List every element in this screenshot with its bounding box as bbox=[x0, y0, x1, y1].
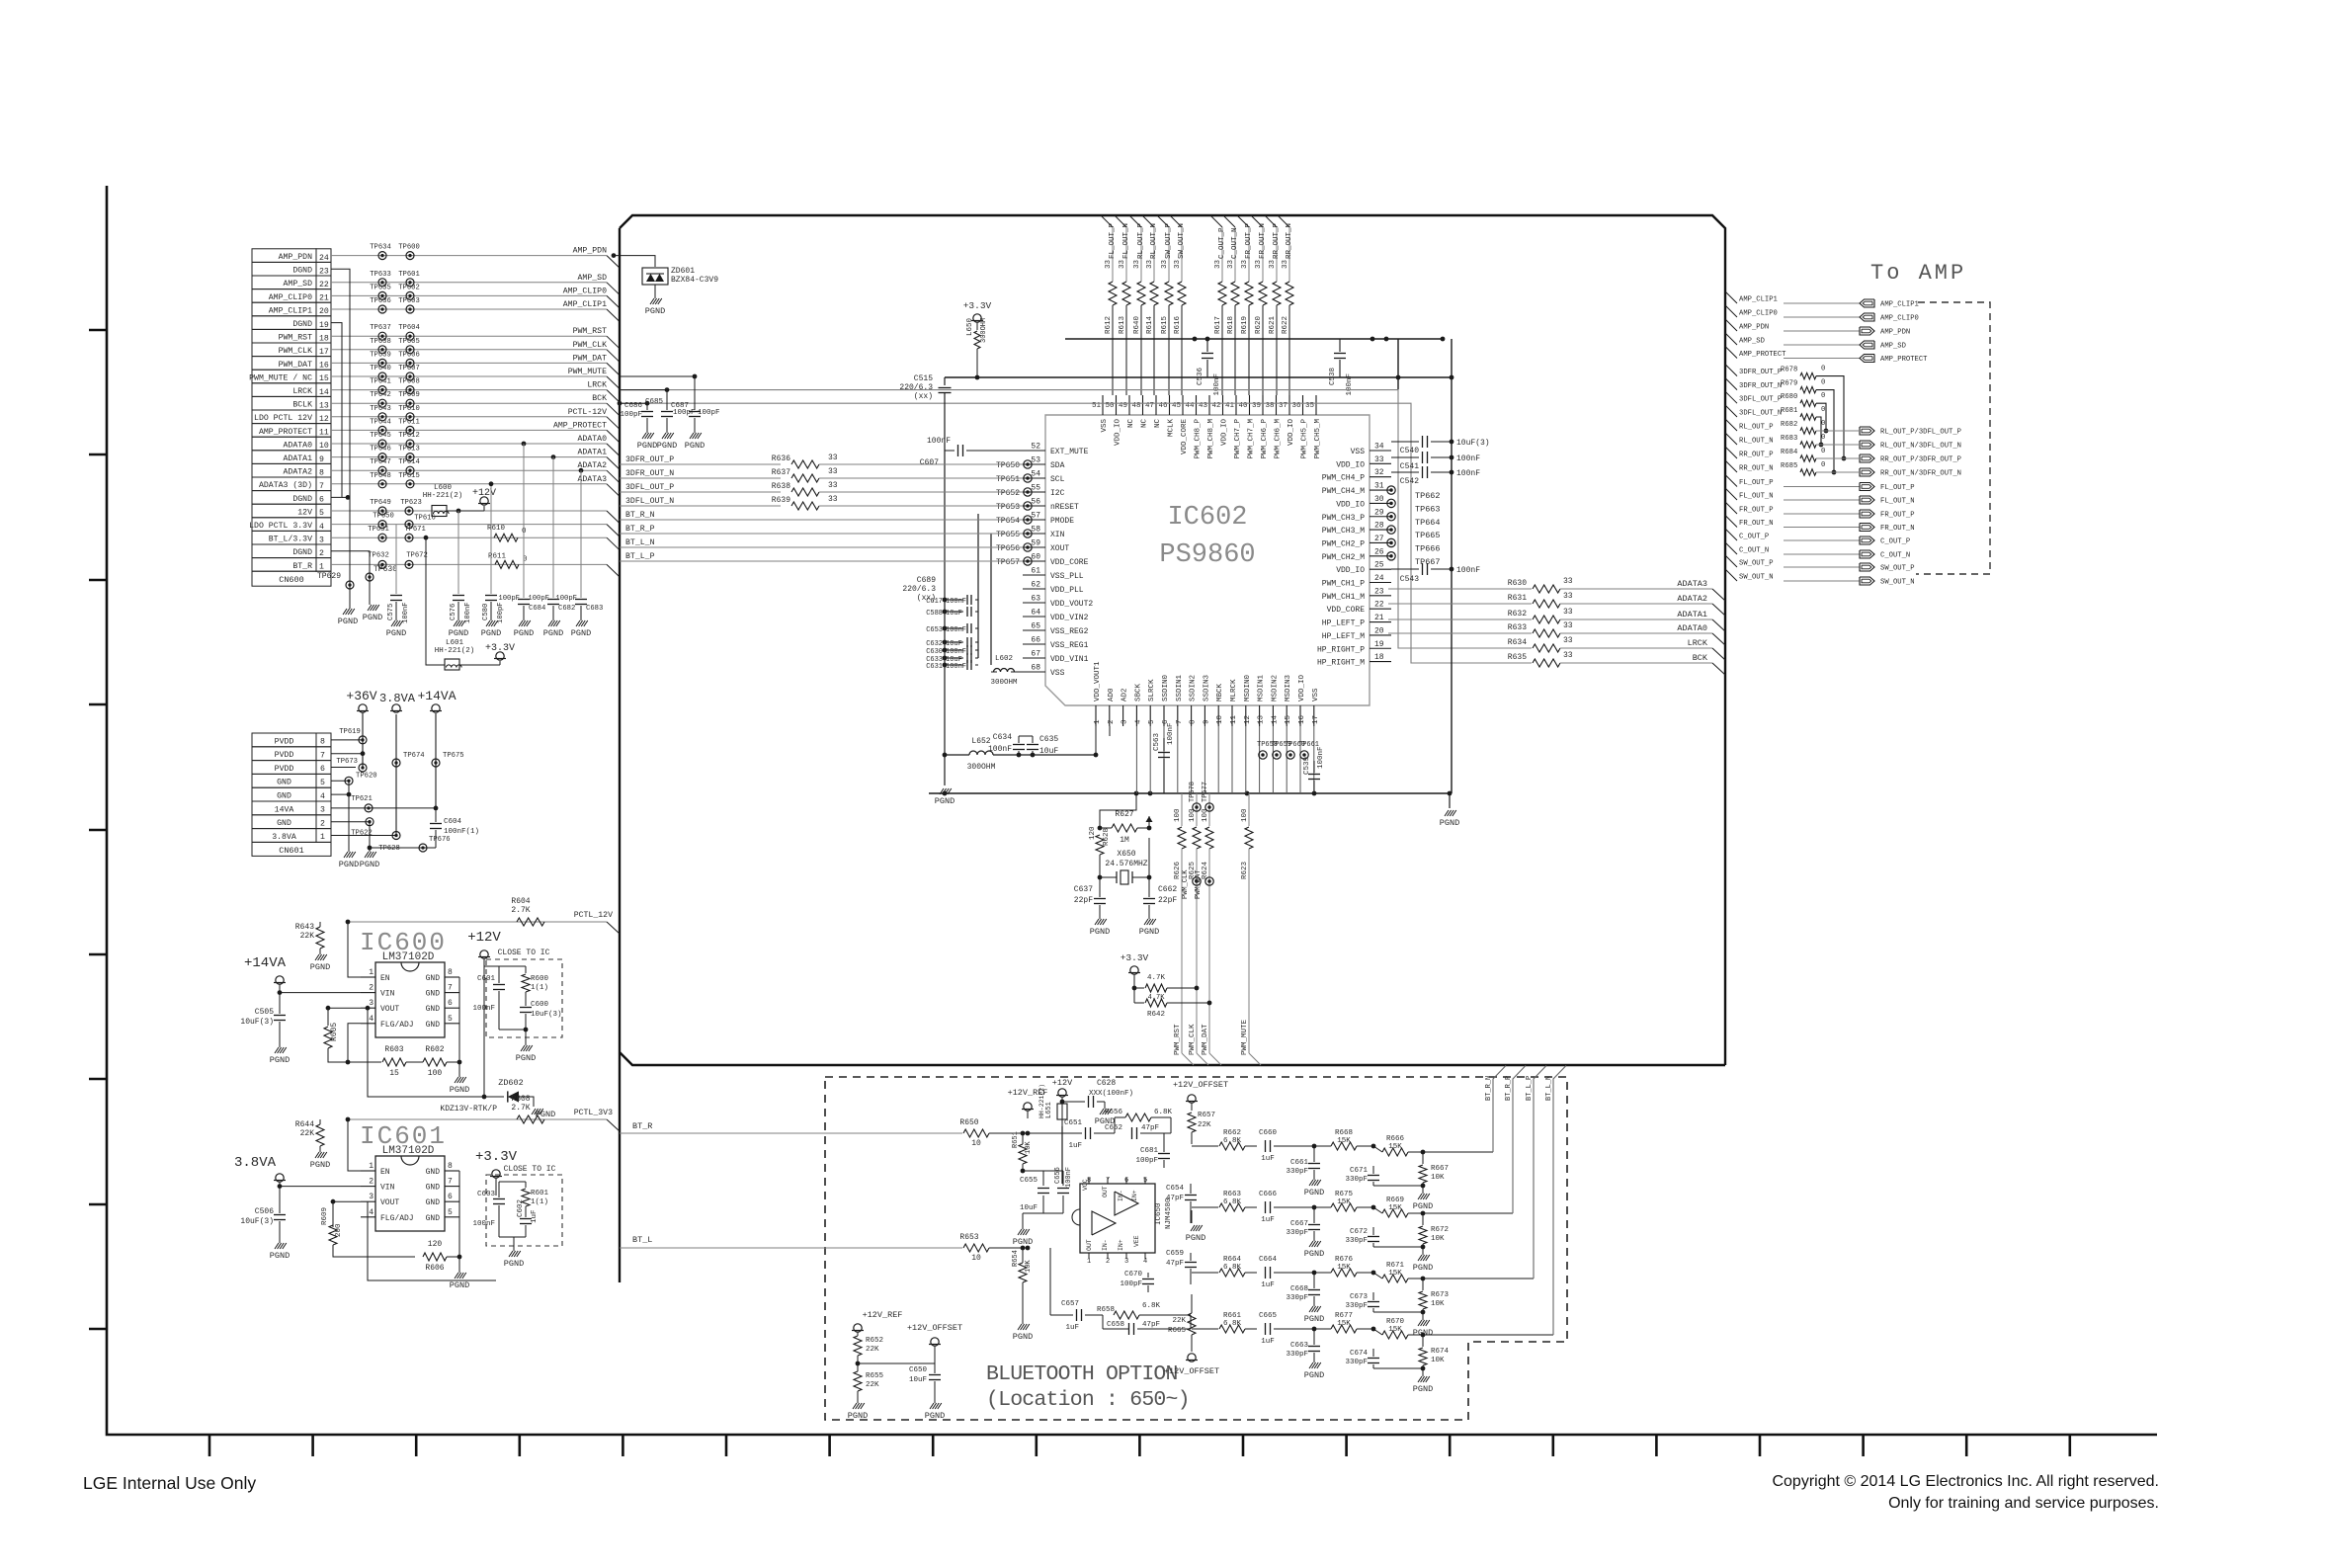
svg-text:SSDIN3: SSDIN3 bbox=[1203, 674, 1210, 701]
capacitor C660 1uF bbox=[1265, 1140, 1267, 1152]
svg-text:PGND: PGND bbox=[925, 1411, 945, 1421]
svg-text:100nF: 100nF bbox=[1167, 722, 1175, 745]
svg-text:R621: R621 bbox=[1269, 315, 1277, 334]
svg-text:PGND: PGND bbox=[1440, 818, 1459, 828]
pin 55 bbox=[1023, 491, 1045, 493]
svg-text:BCLK: BCLK bbox=[292, 401, 312, 410]
svg-text:VDD_IO: VDD_IO bbox=[1298, 674, 1306, 701]
test point TP607 bbox=[406, 372, 414, 380]
ground bbox=[275, 1047, 279, 1053]
svg-text:PGND: PGND bbox=[1186, 1233, 1205, 1243]
svg-text:RL_OUT_N: RL_OUT_N bbox=[1150, 223, 1158, 259]
svg-text:R672: R672 bbox=[1431, 1226, 1449, 1234]
svg-text:PGND: PGND bbox=[1013, 1332, 1033, 1342]
svg-text:PGND: PGND bbox=[386, 628, 406, 638]
svg-text:32: 32 bbox=[1374, 468, 1384, 477]
capacitor C576 bbox=[457, 511, 459, 594]
svg-text:8: 8 bbox=[1190, 719, 1198, 724]
svg-text:10: 10 bbox=[1216, 714, 1224, 724]
svg-text:C671: C671 bbox=[1350, 1167, 1369, 1175]
svg-text:3DFR_OUT_N: 3DFR_OUT_N bbox=[1739, 382, 1782, 390]
wire ADJ bbox=[348, 1024, 361, 1062]
svg-text:AMP_PROTECT: AMP_PROTECT bbox=[1739, 351, 1786, 359]
capacitor C657 bbox=[1049, 1248, 1051, 1315]
wire 3DFR_OUT_P route bbox=[1816, 376, 1844, 458]
svg-text:TP657: TP657 bbox=[996, 558, 1020, 567]
pin 38 bbox=[1276, 395, 1278, 415]
capacitor C632 bbox=[943, 640, 948, 645]
svg-text:AMP_CLIP1: AMP_CLIP1 bbox=[269, 306, 312, 315]
wire pin5 bbox=[1149, 726, 1151, 793]
test point TP650 bbox=[378, 521, 386, 529]
svg-text:PWM_CLK: PWM_CLK bbox=[1182, 869, 1190, 899]
ground bbox=[857, 1391, 859, 1403]
resistor R600 1(1) bbox=[525, 966, 527, 973]
svg-text:33: 33 bbox=[1563, 636, 1573, 645]
svg-text:0: 0 bbox=[1821, 461, 1825, 469]
svg-text:26: 26 bbox=[1374, 547, 1384, 556]
svg-text:100pF: 100pF bbox=[555, 595, 577, 603]
svg-text:12: 12 bbox=[1244, 715, 1252, 724]
wire FR_OUT_P bbox=[1725, 502, 1737, 514]
wire VDD rail bbox=[1451, 339, 1453, 793]
svg-text:TP673: TP673 bbox=[336, 758, 358, 766]
svg-text:54: 54 bbox=[1031, 470, 1040, 479]
svg-text:BT_L/3.3V: BT_L/3.3V bbox=[269, 535, 312, 544]
svg-text:33: 33 bbox=[1563, 577, 1573, 586]
svg-text:GND: GND bbox=[277, 779, 291, 787]
svg-text:C630: C630 bbox=[926, 648, 943, 656]
pin 39 bbox=[1262, 395, 1264, 415]
svg-text:C683: C683 bbox=[586, 605, 603, 613]
connector arrow AMP_PROTECT bbox=[1860, 355, 1874, 363]
svg-text:C634: C634 bbox=[993, 733, 1012, 742]
svg-text:33: 33 bbox=[1214, 259, 1222, 269]
svg-text:AMP_PDN: AMP_PDN bbox=[1739, 324, 1769, 332]
svg-text:1M: 1M bbox=[1120, 836, 1129, 845]
svg-text:6: 6 bbox=[319, 496, 324, 505]
pin 5 bbox=[1149, 705, 1151, 726]
svg-text:L601: L601 bbox=[446, 639, 464, 647]
svg-text:R658: R658 bbox=[1097, 1306, 1115, 1314]
svg-text:0: 0 bbox=[1821, 392, 1825, 400]
svg-text:330pF: 330pF bbox=[1286, 1351, 1308, 1359]
test point TP638 bbox=[378, 346, 386, 354]
pin 15 bbox=[1286, 705, 1287, 726]
wire BT_L bbox=[620, 1247, 962, 1249]
wire pgnd link bbox=[370, 847, 436, 849]
svg-text:PGND: PGND bbox=[514, 628, 534, 638]
wire LRCK bbox=[331, 389, 607, 391]
pin 36 bbox=[1302, 395, 1304, 415]
wire C_OUT_N bbox=[1223, 215, 1235, 227]
svg-text:R670: R670 bbox=[1386, 1318, 1405, 1326]
wire bbox=[333, 1245, 415, 1257]
svg-text:29: 29 bbox=[1374, 508, 1384, 517]
svg-text:100nF: 100nF bbox=[1456, 566, 1480, 575]
svg-text:100nF: 100nF bbox=[946, 648, 966, 656]
svg-text:PGND: PGND bbox=[360, 860, 379, 869]
svg-text:PWM_DAT: PWM_DAT bbox=[1202, 1024, 1209, 1055]
svg-text:KDZ13V-RTK/P: KDZ13V-RTK/P bbox=[440, 1105, 497, 1114]
svg-text:CN601: CN601 bbox=[279, 846, 304, 856]
svg-text:PGND: PGND bbox=[270, 1251, 290, 1261]
svg-text:PGND: PGND bbox=[449, 628, 468, 638]
svg-text:C670: C670 bbox=[1124, 1271, 1143, 1279]
svg-text:100nF: 100nF bbox=[464, 602, 472, 623]
svg-text:17: 17 bbox=[1312, 715, 1320, 724]
svg-text:AMP_PDN: AMP_PDN bbox=[573, 247, 607, 256]
svg-text:TP631: TP631 bbox=[368, 526, 389, 534]
capacitor C661 330pF bbox=[1313, 1146, 1315, 1162]
pin 9 bbox=[1204, 705, 1205, 726]
svg-text:3.8VA: 3.8VA bbox=[272, 833, 296, 842]
wire pin13 bbox=[1259, 726, 1261, 793]
pin 7 bbox=[1177, 705, 1179, 726]
svg-text:55: 55 bbox=[1031, 484, 1040, 493]
wire RR_OUT_N bbox=[1725, 460, 1737, 472]
pin 2 bbox=[1109, 705, 1111, 726]
svg-text:FL_OUT_N: FL_OUT_N bbox=[1739, 493, 1774, 501]
svg-text:33: 33 bbox=[1241, 259, 1249, 269]
svg-text:33: 33 bbox=[1133, 259, 1141, 269]
svg-text:RL_OUT_P/3DFL_OUT_P: RL_OUT_P/3DFL_OUT_P bbox=[1880, 429, 1961, 437]
svg-text:10uF: 10uF bbox=[1020, 1204, 1038, 1212]
svg-text:IN+: IN+ bbox=[1131, 1190, 1138, 1201]
svg-text:DGND: DGND bbox=[292, 548, 312, 557]
svg-text:LGE Internal Use Only: LGE Internal Use Only bbox=[83, 1473, 256, 1493]
svg-text:SW_OUT_N: SW_OUT_N bbox=[1178, 223, 1186, 259]
svg-text:VIN: VIN bbox=[380, 990, 395, 999]
capacitor C662 22pF bbox=[1148, 877, 1150, 897]
pin 4 bbox=[1135, 705, 1137, 726]
BLUETOOTH OPTION dashed box bbox=[825, 1077, 1567, 1420]
IC IC601 LM37102D body bbox=[375, 1156, 445, 1231]
IC IC600 LM37102D body bbox=[375, 962, 445, 1037]
svg-text:PGND: PGND bbox=[543, 628, 563, 638]
svg-text:DGND: DGND bbox=[292, 267, 312, 276]
svg-text:3.8VA: 3.8VA bbox=[234, 1155, 277, 1171]
wire gnd2 rail bbox=[369, 822, 371, 852]
wire PCTL_3V3 bbox=[348, 1118, 607, 1120]
svg-text:3DFR_OUT_P: 3DFR_OUT_P bbox=[1739, 369, 1782, 376]
resistor R640 33 bbox=[1137, 282, 1145, 305]
svg-text:TP664: TP664 bbox=[1415, 518, 1441, 528]
test point TP672 bbox=[405, 560, 413, 568]
svg-text:6.8K: 6.8K bbox=[1223, 1137, 1242, 1145]
test point TP634 bbox=[378, 252, 386, 260]
capacitor C653 bbox=[943, 626, 948, 631]
resistor R679 0 bbox=[1800, 386, 1816, 392]
pin 42 bbox=[1222, 395, 1224, 415]
resistor R623 100 bbox=[1245, 827, 1253, 849]
wire AMP_SD bbox=[331, 282, 607, 284]
wire PWM_CLK bbox=[331, 349, 607, 351]
wire VOUT to ZD602 bbox=[366, 1006, 371, 1011]
resistor R684 0 bbox=[1800, 455, 1816, 461]
capacitor C674 330pF bbox=[1372, 1349, 1374, 1357]
svg-text:200: 200 bbox=[335, 1223, 343, 1237]
svg-text:33: 33 bbox=[828, 481, 838, 490]
capacitor C667 330pF bbox=[1313, 1207, 1315, 1223]
svg-text:TP674: TP674 bbox=[403, 752, 425, 760]
svg-text:27: 27 bbox=[1374, 535, 1384, 543]
svg-text:1: 1 bbox=[1094, 719, 1102, 724]
svg-text:TP609: TP609 bbox=[398, 391, 420, 399]
svg-text:GND: GND bbox=[426, 974, 441, 983]
test point TP655 bbox=[1024, 530, 1032, 537]
svg-text:1uF: 1uF bbox=[1261, 1216, 1275, 1224]
svg-text:+14VA: +14VA bbox=[244, 955, 287, 971]
svg-text:ADATA0: ADATA0 bbox=[284, 441, 313, 450]
pin 26 bbox=[1370, 555, 1391, 557]
svg-text:7: 7 bbox=[448, 984, 453, 993]
svg-text:C672: C672 bbox=[1350, 1228, 1368, 1236]
svg-text:C652: C652 bbox=[1105, 1124, 1122, 1132]
svg-text:TP641: TP641 bbox=[370, 378, 391, 386]
svg-text:(Location : 650~): (Location : 650~) bbox=[986, 1388, 1190, 1412]
svg-text:10uF(3): 10uF(3) bbox=[1456, 439, 1490, 448]
svg-text:MSDIN3: MSDIN3 bbox=[1285, 674, 1292, 701]
svg-text:14VA: 14VA bbox=[275, 805, 294, 814]
svg-text:PWM_CH2_P: PWM_CH2_P bbox=[1322, 539, 1365, 548]
wire BT_R bbox=[620, 1132, 962, 1134]
svg-text:3DFR_OUT_N: 3DFR_OUT_N bbox=[625, 469, 674, 478]
svg-text:TP661: TP661 bbox=[1298, 741, 1319, 749]
svg-text:100: 100 bbox=[1241, 808, 1249, 822]
connector arrow RR_OUT_P/3DFR_OUT_P bbox=[1860, 454, 1874, 462]
wire 3DFL_OUT_N route bbox=[1816, 417, 1821, 445]
CLOSE TO IC box bbox=[486, 1175, 562, 1246]
svg-text:TP654: TP654 bbox=[996, 517, 1020, 526]
svg-text:R619: R619 bbox=[1241, 316, 1249, 334]
test point TP611 bbox=[406, 426, 414, 434]
svg-text:2: 2 bbox=[319, 549, 324, 558]
svg-text:C540: C540 bbox=[1400, 447, 1419, 455]
svg-text:8: 8 bbox=[320, 738, 325, 747]
svg-text:PWM_CLK: PWM_CLK bbox=[573, 341, 607, 350]
svg-text:TP671: TP671 bbox=[404, 526, 426, 534]
svg-text:67: 67 bbox=[1031, 650, 1040, 659]
svg-text:TP638: TP638 bbox=[370, 338, 391, 346]
pin 1 EN bbox=[361, 1170, 375, 1172]
svg-text:GND: GND bbox=[426, 1198, 441, 1207]
pin 11 bbox=[1231, 705, 1233, 726]
pin 5 GND bbox=[445, 1216, 459, 1218]
connector arrow SW_OUT_P bbox=[1860, 563, 1874, 571]
resistor R621 33 bbox=[1273, 282, 1281, 305]
svg-text:C600: C600 bbox=[531, 1001, 549, 1009]
svg-text:PWM_CLK: PWM_CLK bbox=[279, 347, 312, 356]
svg-text:PWM_DAT: PWM_DAT bbox=[1195, 870, 1203, 899]
svg-text:C674: C674 bbox=[1350, 1350, 1369, 1358]
wire C_OUT_P bbox=[1725, 529, 1737, 540]
svg-text:12: 12 bbox=[319, 415, 329, 424]
svg-text:13: 13 bbox=[319, 401, 329, 410]
svg-text:R652: R652 bbox=[866, 1337, 883, 1345]
svg-text:RR_OUT_P/3DFR_OUT_P: RR_OUT_P/3DFR_OUT_P bbox=[1880, 456, 1961, 464]
svg-text:PCTL_3V3: PCTL_3V3 bbox=[574, 1109, 613, 1117]
svg-text:330pF: 330pF bbox=[1345, 1237, 1368, 1245]
svg-text:300OHM: 300OHM bbox=[980, 318, 988, 343]
svg-text:6.8K: 6.8K bbox=[1223, 1320, 1242, 1328]
svg-text:PWM_CH3_P: PWM_CH3_P bbox=[1322, 514, 1365, 523]
resistor R614 33 bbox=[1150, 282, 1158, 305]
resistor R636 33 bbox=[791, 460, 819, 468]
wire RL/RR rows to arrows bbox=[1816, 431, 1860, 472]
svg-text:10uF: 10uF bbox=[909, 1376, 927, 1384]
svg-text:PGND: PGND bbox=[516, 1053, 536, 1063]
svg-text:30: 30 bbox=[1374, 495, 1384, 504]
svg-text:C_OUT_P: C_OUT_P bbox=[1880, 538, 1910, 546]
svg-text:62: 62 bbox=[1031, 581, 1040, 590]
svg-text:R620: R620 bbox=[1255, 315, 1263, 334]
svg-text:C631: C631 bbox=[926, 663, 943, 671]
svg-text:4: 4 bbox=[369, 1208, 374, 1217]
svg-text:47pF: 47pF bbox=[1166, 1195, 1184, 1202]
svg-text:C541: C541 bbox=[1400, 462, 1419, 471]
svg-text:AMP_PDN: AMP_PDN bbox=[1880, 329, 1910, 337]
pin 32 bbox=[1370, 476, 1391, 478]
power +12V bbox=[480, 497, 488, 505]
svg-text:AMP_CLIP1: AMP_CLIP1 bbox=[1880, 301, 1919, 309]
pin 67 bbox=[1023, 657, 1045, 659]
svg-text:PGND: PGND bbox=[1304, 1370, 1324, 1380]
capacitor C635 10uF bbox=[1032, 736, 1034, 743]
svg-text:13: 13 bbox=[1258, 714, 1266, 724]
test point TP671 bbox=[405, 534, 413, 541]
resistor R669 15K bbox=[1382, 1209, 1408, 1217]
wire 14VA rail bbox=[435, 713, 437, 808]
svg-text:R609: R609 bbox=[321, 1207, 329, 1225]
svg-text:RR_OUT_N/3DFR_OUT_N: RR_OUT_N/3DFR_OUT_N bbox=[1880, 470, 1961, 478]
pin 61 bbox=[1023, 574, 1045, 576]
wire EN bbox=[348, 1119, 361, 1171]
svg-text:C667: C667 bbox=[1290, 1220, 1308, 1228]
svg-text:TP652: TP652 bbox=[996, 489, 1020, 498]
wire VIN bbox=[280, 1182, 361, 1187]
svg-text:C603: C603 bbox=[477, 1191, 496, 1198]
svg-text:PWM_CH4_M: PWM_CH4_M bbox=[1322, 487, 1365, 496]
svg-text:PGND: PGND bbox=[1413, 1384, 1433, 1394]
svg-text:PWM_CH8_P: PWM_CH8_P bbox=[1195, 419, 1203, 459]
svg-text:VDD_VIN1: VDD_VIN1 bbox=[1050, 655, 1089, 664]
resistor R682 0 bbox=[1800, 428, 1816, 434]
svg-text:BCK: BCK bbox=[1693, 653, 1708, 663]
svg-text:PGND: PGND bbox=[1139, 927, 1159, 937]
svg-text:FL_OUT_P: FL_OUT_P bbox=[1109, 222, 1117, 259]
ground bbox=[1018, 1324, 1022, 1330]
pin 20 bbox=[1370, 634, 1391, 636]
svg-text:10: 10 bbox=[971, 1254, 981, 1263]
svg-text:TP653: TP653 bbox=[996, 503, 1020, 512]
pin 68 bbox=[1023, 671, 1045, 673]
test point TP616 bbox=[405, 521, 413, 529]
pin 33 bbox=[1370, 462, 1391, 464]
ground bbox=[1095, 919, 1099, 925]
wire ladder row 2 bbox=[1192, 1206, 1218, 1208]
connector arrow RL_OUT_P/3DFL_OUT_P bbox=[1860, 427, 1874, 435]
pin 22 bbox=[1370, 608, 1391, 610]
svg-text:22: 22 bbox=[1374, 601, 1384, 610]
wire ADATA3 bbox=[331, 483, 607, 485]
svg-text:21: 21 bbox=[319, 294, 329, 303]
resistor R641 4.7K bbox=[1134, 987, 1144, 989]
capacitor C685 100pF bbox=[620, 390, 667, 410]
svg-text:5: 5 bbox=[319, 509, 324, 518]
wire 3DFL_OUT_P route bbox=[1816, 403, 1826, 431]
svg-text:C637: C637 bbox=[1074, 885, 1093, 894]
wire BT_L_N bbox=[1553, 1066, 1566, 1336]
svg-text:C506: C506 bbox=[255, 1207, 274, 1216]
svg-text:C650: C650 bbox=[909, 1366, 928, 1374]
wire ADATA2 bbox=[1388, 603, 1532, 605]
svg-text:10uF: 10uF bbox=[946, 640, 962, 648]
svg-text:15K: 15K bbox=[1388, 1204, 1402, 1212]
pin 62 bbox=[1023, 588, 1045, 590]
svg-text:TP649: TP649 bbox=[370, 499, 391, 507]
svg-text:GND: GND bbox=[426, 1214, 441, 1223]
wire ADATA1 bbox=[1388, 619, 1532, 620]
svg-text:R613: R613 bbox=[1119, 315, 1126, 334]
test point TP667 bbox=[1387, 552, 1395, 560]
resistor R608 2.7K bbox=[517, 1115, 544, 1123]
resistor R601 1(1) bbox=[525, 1182, 527, 1188]
svg-text:100: 100 bbox=[428, 1069, 443, 1078]
pin 14 bbox=[1272, 705, 1274, 726]
pin 53 bbox=[1023, 463, 1045, 465]
test point TP636 bbox=[378, 305, 386, 313]
svg-text:R615: R615 bbox=[1161, 315, 1169, 334]
svg-text:R614: R614 bbox=[1146, 315, 1154, 334]
svg-text:63: 63 bbox=[1031, 595, 1040, 604]
resistor R609 200 bbox=[329, 1225, 337, 1245]
pin 58 bbox=[1023, 533, 1045, 535]
svg-text:FL_OUT_P: FL_OUT_P bbox=[1739, 479, 1774, 487]
svg-text:2.7K: 2.7K bbox=[511, 906, 530, 915]
svg-text:330pF: 330pF bbox=[1345, 1359, 1368, 1366]
ground bbox=[365, 852, 369, 858]
svg-text:15: 15 bbox=[1285, 714, 1292, 724]
svg-text:R640: R640 bbox=[1133, 315, 1141, 334]
capacitor C563 100nF bbox=[1163, 738, 1165, 751]
test point TP673 bbox=[359, 764, 367, 772]
svg-text:IC650: IC650 bbox=[1155, 1202, 1163, 1225]
resistor R639 33 bbox=[791, 502, 819, 510]
svg-text:R600: R600 bbox=[531, 975, 549, 983]
pin 49 bbox=[1128, 395, 1130, 415]
svg-text:C515: C515 bbox=[914, 374, 933, 383]
resistor R611 bbox=[495, 560, 519, 568]
svg-text:220/6.3: 220/6.3 bbox=[899, 383, 933, 392]
test point TP603 bbox=[406, 305, 414, 313]
connector arrow SW_OUT_N bbox=[1860, 577, 1874, 585]
svg-text:10K: 10K bbox=[1431, 1300, 1445, 1308]
svg-text:6.8K: 6.8K bbox=[1154, 1109, 1173, 1116]
svg-text:BLUETOOTH OPTION: BLUETOOTH OPTION bbox=[986, 1362, 1178, 1386]
svg-text:R631: R631 bbox=[1508, 594, 1527, 603]
svg-text:22K: 22K bbox=[300, 932, 315, 941]
svg-text:22K: 22K bbox=[866, 1381, 879, 1389]
svg-text:C656: C656 bbox=[1054, 1167, 1062, 1184]
test point TP675 bbox=[432, 759, 440, 767]
svg-text:3: 3 bbox=[319, 536, 324, 544]
svg-text:PMODE: PMODE bbox=[1050, 517, 1074, 526]
wire BCK bbox=[620, 403, 1532, 663]
wire RR_OUT_N bbox=[1278, 215, 1289, 227]
wire bbox=[406, 1061, 423, 1063]
svg-text:L651: L651 bbox=[1045, 1102, 1053, 1118]
